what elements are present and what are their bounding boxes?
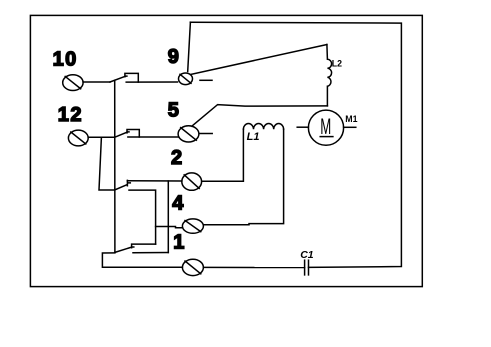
wire switch S2 to terminal 5 [128,136,179,138]
svg-text:L2: L2 [332,59,342,69]
switch arm 9 to L2 [191,45,327,75]
wire under S3 hook to node down [129,190,156,244]
svg-text:M1: M1 [345,114,357,124]
border frame [30,15,422,286]
wire from top bus down to terminal 9 [188,22,191,71]
switch S1 arm (row 9) [110,76,125,82]
terminal 1 [182,259,203,275]
switch S4 arm (row 1) [115,247,131,252]
svg-text:L1: L1 [247,131,260,143]
wire switch S1 to terminal 9 [126,81,177,83]
switch S3 arm (row 2) [115,185,127,190]
svg-text:2: 2 [171,147,182,169]
wire terminal 2 to L1 [202,129,244,181]
wire terminal 10 to switch S1 [83,81,110,83]
inductor L2 [327,45,332,106]
terminal 2 [182,173,202,190]
svg-text:9: 9 [168,46,179,68]
terminal 5 [178,126,199,142]
wire terminal 2 junction down to S4 output [167,181,169,253]
motor right stub wire [344,126,356,128]
inductor L1 [243,124,283,130]
wire L1 to terminal 4 [204,129,284,225]
motor M1 [308,110,343,145]
terminal 12 [68,130,88,146]
switch S2 arm (row 5) [115,132,128,137]
svg-text:1: 1 [173,232,184,254]
switch S3 contact hook [127,180,130,185]
svg-text:12: 12 [58,104,83,126]
wire terminal 1 to C1 [204,266,305,268]
motor left stub wire [297,126,308,128]
wire top/right/bottom loop from node above 9 to C1 [190,22,401,267]
switch arm 5 to motor branch [192,105,328,127]
open contact dash right of 9 [200,79,212,81]
branch wire 12 down to switch S3 [99,137,115,190]
svg-text:5: 5 [168,99,179,121]
terminal 9 [179,73,193,85]
wire terminal 12 to switch S2 [88,136,114,138]
open contact dash right of 5 [200,133,212,135]
svg-text:10: 10 [53,49,78,71]
capacitor C1 [305,260,309,275]
switch S4 contact hook [132,244,156,248]
wire S4 output to junction [133,252,168,254]
ganged-switch linkage bus [114,80,116,252]
svg-text:C1: C1 [300,249,314,261]
svg-text:M: M [320,114,331,139]
wire node to terminal 4 [156,227,183,228]
wire switch S3 to terminal 2 [127,180,181,182]
switch S1 contact hook [125,73,138,82]
terminal 10 [63,75,83,91]
svg-text:4: 4 [172,193,184,215]
terminal 4 [182,219,203,233]
wire S4 pivot to terminal 1 [102,253,182,267]
switch S2 contact hook [127,130,139,138]
